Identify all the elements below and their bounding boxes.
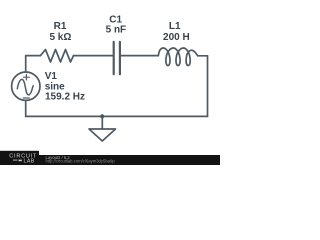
- svg-text:5 nF: 5 nF: [106, 25, 127, 36]
- wire R1 to C1: [74, 55, 113, 57]
- capacitor C1: [114, 42, 120, 74]
- svg-text:159.2 Hz: 159.2 Hz: [45, 92, 85, 103]
- svg-text:http://circuitlab.com/c/6aym3d: http://circuitlab.com/c/6aym3dy5ba9p: [46, 159, 116, 164]
- svg-text:LAB: LAB: [24, 158, 35, 164]
- ground: [89, 116, 116, 141]
- voltage source V1 circle: [12, 72, 40, 100]
- wire C1 to L1: [121, 55, 158, 57]
- svg-text:R1: R1: [54, 21, 67, 32]
- wire L1 to top-right corner: [198, 55, 208, 57]
- inductor L1: [158, 48, 197, 66]
- resistor R1: [41, 50, 74, 63]
- V1 minus sign: [23, 97, 29, 99]
- watermark bar: [0, 155, 220, 165]
- V1 sine wave: [17, 79, 33, 95]
- svg-text:5 kΩ: 5 kΩ: [49, 32, 71, 43]
- V1 plus sign: [24, 74, 30, 80]
- wire right rail: [207, 56, 209, 117]
- svg-text:V1: V1: [45, 71, 58, 82]
- wire top-left segment: [26, 56, 41, 72]
- svg-text:200 H: 200 H: [163, 32, 190, 43]
- label R1: [45, 15, 190, 103]
- wire left rail lower: [25, 101, 27, 116]
- node junction dot: [100, 114, 104, 118]
- circuitlab logo: [9, 154, 115, 165]
- svg-text:L1: L1: [169, 21, 181, 32]
- wire bottom rail: [26, 115, 208, 117]
